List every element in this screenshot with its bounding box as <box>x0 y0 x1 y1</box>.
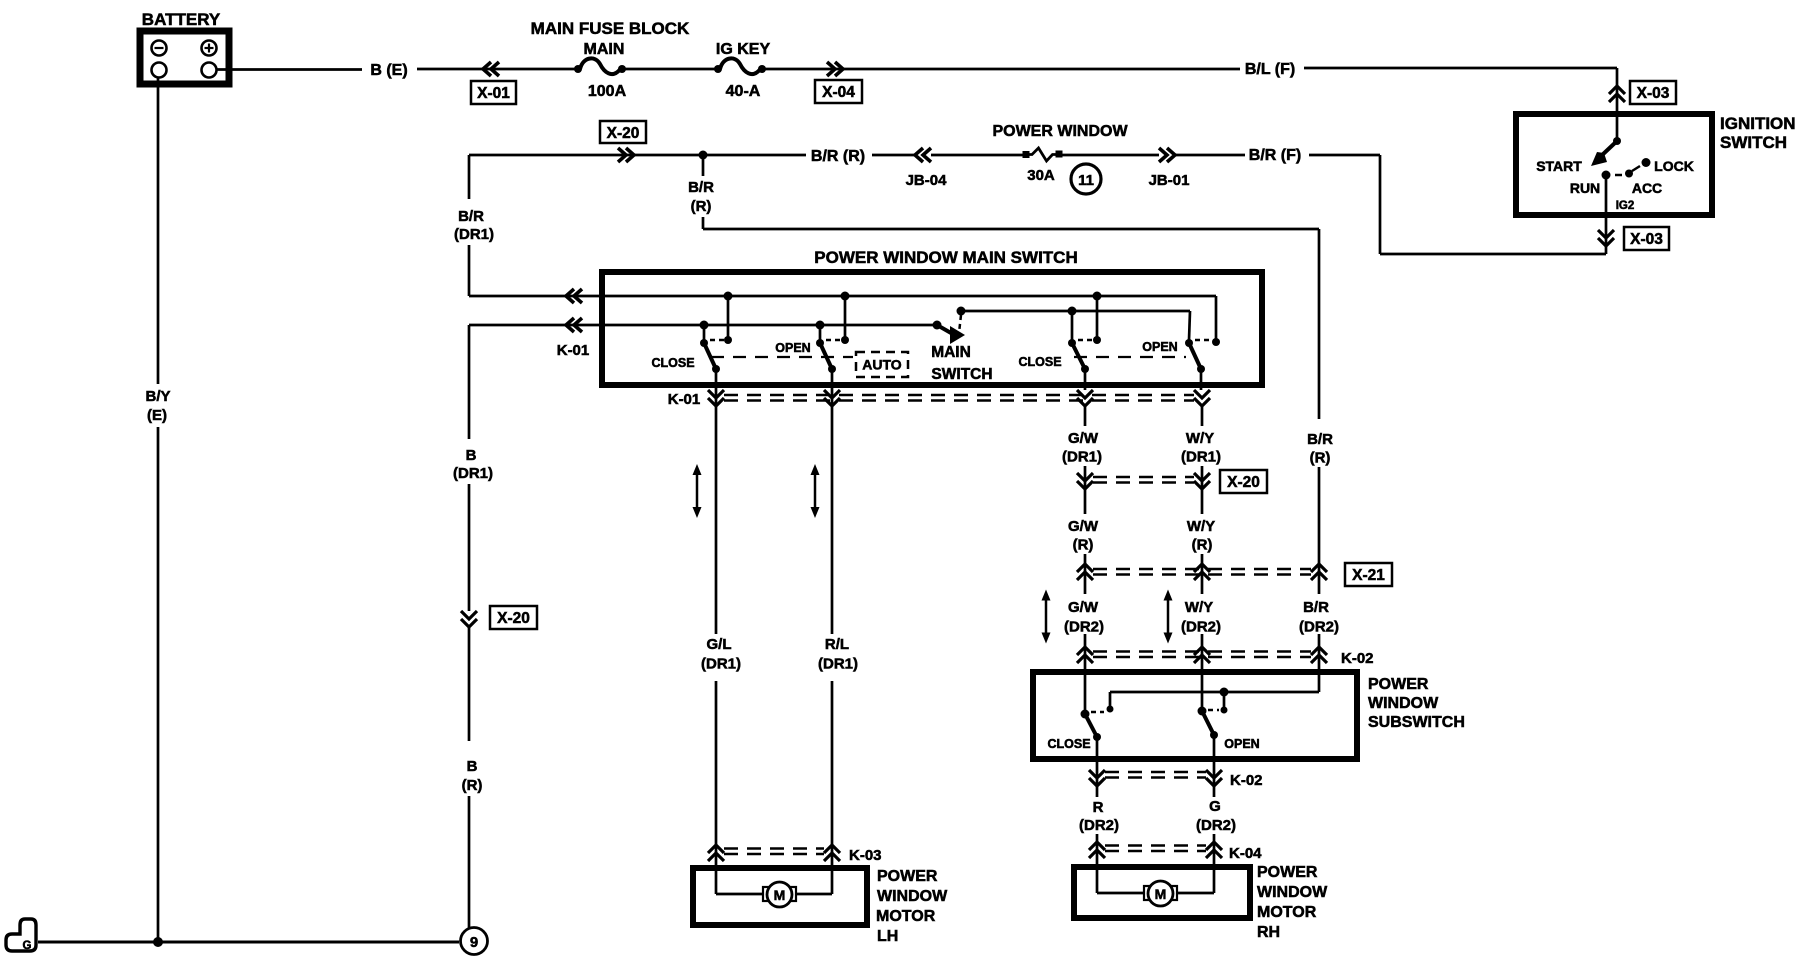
svg-text:WINDOW: WINDOW <box>1368 695 1439 712</box>
svg-text:(R): (R) <box>1192 537 1213 554</box>
svg-text:(R): (R) <box>462 777 483 794</box>
svg-text:B/Y: B/Y <box>145 388 170 405</box>
svg-text:POWER WINDOW MAIN SWITCH: POWER WINDOW MAIN SWITCH <box>814 248 1077 267</box>
svg-text:POWER: POWER <box>1257 864 1318 881</box>
svg-text:X-20: X-20 <box>607 125 640 142</box>
svg-text:B: B <box>466 447 477 464</box>
svg-text:B/R: B/R <box>1307 431 1333 448</box>
svg-text:(DR1): (DR1) <box>701 656 741 673</box>
svg-text:(DR1): (DR1) <box>1181 449 1221 466</box>
svg-text:B/L (F): B/L (F) <box>1245 61 1295 78</box>
svg-text:(DR2): (DR2) <box>1299 619 1339 636</box>
svg-text:(DR2): (DR2) <box>1181 619 1221 636</box>
svg-text:BATTERY: BATTERY <box>142 10 221 29</box>
svg-text:MOTOR: MOTOR <box>876 908 936 925</box>
svg-text:(DR2): (DR2) <box>1079 817 1119 834</box>
svg-text:B/R (F): B/R (F) <box>1249 147 1301 164</box>
svg-text:SWITCH: SWITCH <box>931 366 992 383</box>
svg-text:POWER: POWER <box>877 868 938 885</box>
svg-text:POWER WINDOW: POWER WINDOW <box>992 123 1128 140</box>
svg-text:X-03: X-03 <box>1637 85 1670 102</box>
svg-text:40-A: 40-A <box>726 83 761 100</box>
svg-text:G/L: G/L <box>707 636 732 653</box>
svg-text:LH: LH <box>877 928 898 945</box>
svg-text:CLOSE: CLOSE <box>1018 355 1061 369</box>
svg-text:SUBSWITCH: SUBSWITCH <box>1368 714 1465 731</box>
svg-text:K-02: K-02 <box>1230 772 1263 789</box>
svg-text:(E): (E) <box>147 407 167 424</box>
svg-text:X-01: X-01 <box>477 85 510 102</box>
svg-text:IGNITION: IGNITION <box>1720 114 1796 133</box>
svg-text:B/R: B/R <box>458 208 484 225</box>
svg-text:MOTOR: MOTOR <box>1257 904 1317 921</box>
svg-text:B/R: B/R <box>688 179 714 196</box>
svg-text:K-02: K-02 <box>1341 650 1374 667</box>
svg-text:K-01: K-01 <box>557 342 590 359</box>
svg-text:100A: 100A <box>588 83 627 100</box>
svg-text:M: M <box>774 887 786 903</box>
svg-text:CLOSE: CLOSE <box>651 356 694 370</box>
svg-text:OPEN: OPEN <box>1142 340 1177 354</box>
svg-text:IG2: IG2 <box>1616 200 1635 212</box>
svg-text:B/R (R): B/R (R) <box>811 148 865 165</box>
svg-text:(DR2): (DR2) <box>1064 619 1104 636</box>
svg-text:MAIN FUSE BLOCK: MAIN FUSE BLOCK <box>531 19 690 38</box>
svg-text:X-20: X-20 <box>497 610 530 627</box>
svg-text:OPEN: OPEN <box>775 341 810 355</box>
svg-text:(DR2): (DR2) <box>1196 817 1236 834</box>
svg-text:G/W: G/W <box>1068 430 1099 447</box>
svg-text:START: START <box>1536 158 1582 174</box>
svg-text:(DR1): (DR1) <box>454 226 494 243</box>
svg-text:G: G <box>1209 798 1221 815</box>
svg-text:11: 11 <box>1078 172 1094 189</box>
svg-text:X-20: X-20 <box>1227 474 1260 491</box>
svg-text:(DR1): (DR1) <box>1062 449 1102 466</box>
svg-text:G/W: G/W <box>1068 518 1099 535</box>
svg-text:(R): (R) <box>691 198 712 215</box>
svg-text:B/R: B/R <box>1303 599 1329 616</box>
svg-text:K-01: K-01 <box>668 391 701 408</box>
svg-text:(DR1): (DR1) <box>453 465 493 482</box>
svg-text:B (E): B (E) <box>370 62 407 79</box>
svg-text:K-03: K-03 <box>849 847 882 864</box>
svg-text:30A: 30A <box>1027 167 1055 184</box>
svg-text:MAIN: MAIN <box>584 41 625 58</box>
svg-text:X-04: X-04 <box>822 84 855 101</box>
svg-text:LOCK: LOCK <box>1654 158 1694 174</box>
svg-text:G: G <box>23 940 32 952</box>
svg-text:K-04: K-04 <box>1229 845 1262 862</box>
svg-text:WINDOW: WINDOW <box>877 888 948 905</box>
svg-text:W/Y: W/Y <box>1185 599 1213 616</box>
svg-text:RH: RH <box>1257 924 1280 941</box>
svg-text:WINDOW: WINDOW <box>1257 884 1328 901</box>
svg-text:RUN: RUN <box>1570 180 1600 196</box>
svg-text:R/L: R/L <box>825 636 849 653</box>
svg-text:SWITCH: SWITCH <box>1720 133 1787 152</box>
svg-text:B: B <box>467 758 478 775</box>
svg-text:JB-04: JB-04 <box>906 172 948 189</box>
svg-text:(R): (R) <box>1310 450 1331 467</box>
svg-text:W/Y: W/Y <box>1187 518 1215 535</box>
svg-text:G/W: G/W <box>1068 599 1099 616</box>
svg-text:CLOSE: CLOSE <box>1047 737 1090 751</box>
svg-text:X-21: X-21 <box>1352 567 1385 584</box>
svg-text:IG KEY: IG KEY <box>716 41 771 58</box>
svg-text:R: R <box>1093 799 1104 816</box>
svg-text:(DR1): (DR1) <box>818 656 858 673</box>
svg-text:MAIN: MAIN <box>931 344 971 361</box>
svg-text:AUTO: AUTO <box>862 357 902 373</box>
svg-text:M: M <box>1155 886 1167 902</box>
svg-text:OPEN: OPEN <box>1224 737 1259 751</box>
svg-text:X-03: X-03 <box>1630 231 1663 248</box>
svg-text:W/Y: W/Y <box>1186 430 1214 447</box>
svg-text:JB-01: JB-01 <box>1149 172 1190 189</box>
svg-text:(R): (R) <box>1073 537 1094 554</box>
svg-text:ACC: ACC <box>1632 180 1662 196</box>
svg-text:9: 9 <box>470 934 478 951</box>
svg-text:POWER: POWER <box>1368 676 1429 693</box>
